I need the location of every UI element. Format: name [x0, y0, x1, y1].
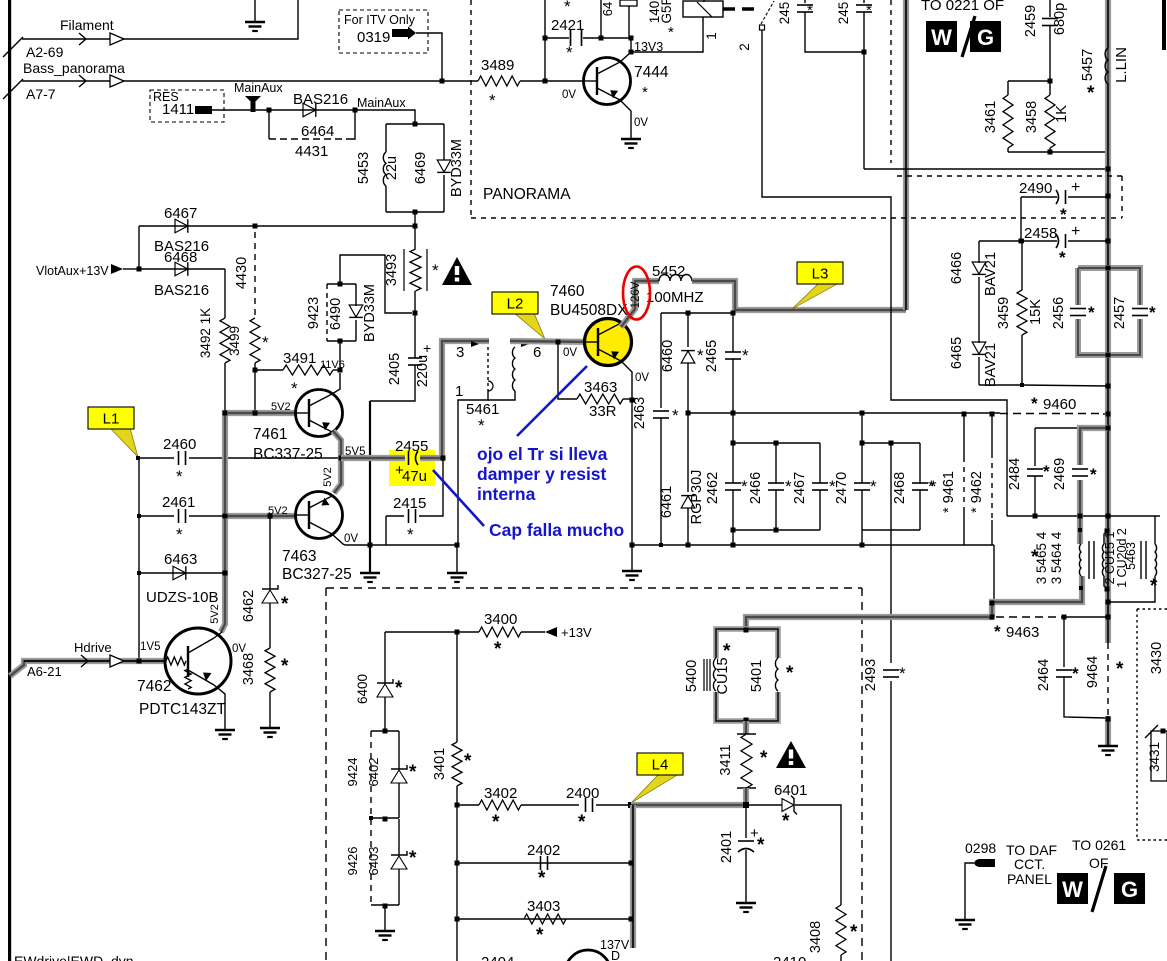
warning triangle 2 [776, 741, 806, 768]
svg-text:6402: 6402 [366, 758, 381, 787]
gray trace winding 5465 path [1077, 516, 1083, 544]
svg-text:Filament: Filament [60, 17, 114, 33]
svg-text:3489: 3489 [481, 57, 514, 74]
svg-text:5V2: 5V2 [209, 604, 221, 624]
diode 6464 BAS216 [303, 103, 316, 117]
svg-text:A2-69: A2-69 [26, 44, 64, 60]
svg-text:A6-21: A6-21 [27, 664, 62, 679]
box CU15 5400 5401 [716, 629, 778, 721]
svg-text:MainAux: MainAux [357, 96, 406, 110]
svg-text:*: * [1059, 248, 1066, 267]
junction L4 [628, 802, 634, 808]
wire component 64xx [600, 0, 602, 38]
svg-text:G5P: G5P [659, 0, 674, 24]
junction 2415 riser [441, 456, 446, 461]
capacitor 2456 [1070, 305, 1086, 319]
resistor 3493 fusible [403, 249, 405, 291]
wire collector node stub [661, 312, 735, 314]
svg-text:+: + [423, 340, 431, 356]
svg-text:*: * [1116, 659, 1124, 680]
svg-text:47u: 47u [402, 468, 427, 485]
svg-text:2405: 2405 [387, 353, 403, 385]
wire 1411 to MainAux plug [212, 109, 269, 111]
svg-text:7444: 7444 [634, 64, 669, 81]
pin marker 6 [521, 341, 529, 347]
capacitor bank 2470 2468 [861, 413, 863, 443]
capacitor bank 2462 2466 2467 [732, 413, 734, 443]
gray bus far right x1108 upper [1105, 0, 1111, 48]
transistor 7461 BC337-25 [296, 390, 343, 437]
capacitor 245x a [804, 0, 806, 3]
svg-text:1411: 1411 [162, 101, 194, 118]
dashed link 9462 [991, 414, 993, 453]
svg-text:6461: 6461 [659, 486, 675, 518]
resistor 3403 [524, 914, 566, 924]
capacitor 2415 [386, 515, 404, 517]
junction bass/0319 [440, 79, 445, 84]
svg-text:5452: 5452 [652, 263, 685, 280]
relay contact 4431 bypass path [268, 110, 270, 139]
gray trace collector 7460 to coil 5452 [621, 281, 659, 327]
bus junction dots [1106, 167, 1111, 172]
junction base 7460 [556, 340, 561, 345]
junction 3499 bottom [253, 368, 258, 373]
svg-text:*: * [899, 664, 906, 683]
svg-text:6400: 6400 [355, 674, 370, 704]
wire 6467 to 6468 row [138, 226, 140, 269]
wire bank1 to rail [732, 530, 734, 545]
inductor 5452 100MHZ [659, 275, 692, 282]
svg-text:9464: 9464 [1085, 656, 1101, 688]
PANORAMA dashed border bottom [471, 217, 1122, 219]
svg-text:2461: 2461 [162, 494, 195, 511]
svg-text:MainAux: MainAux [234, 81, 283, 95]
node line y413 [688, 412, 1000, 414]
svg-text:RGP30J: RGP30J [689, 470, 705, 525]
wire 3403 row [457, 918, 631, 920]
capacitor 2405 220u [414, 313, 416, 358]
warning triangle 1 [442, 257, 472, 285]
svg-text:*: * [870, 477, 877, 496]
svg-text:*: * [432, 261, 439, 280]
rail down to gray corner [993, 545, 995, 603]
dashed trace 9463 [996, 616, 1062, 618]
svg-text:4431: 4431 [295, 143, 328, 160]
svg-text:*: * [1031, 394, 1038, 413]
svg-text:3458: 3458 [1024, 101, 1040, 133]
svg-text:7461: 7461 [253, 426, 287, 443]
page left border [8, 0, 11, 961]
svg-text:For ITV Only: For ITV Only [344, 13, 416, 27]
spark gap 9424 diode 6402 [383, 729, 388, 734]
ground 2401 [736, 902, 756, 905]
svg-text:*: * [723, 641, 731, 662]
svg-text:0319: 0319 [357, 29, 390, 46]
diode 6469 BYD33M [437, 160, 451, 172]
diode 6468 BAS216 [175, 262, 188, 276]
svg-text:*: * [407, 525, 414, 544]
junction Hdrive [137, 659, 142, 664]
diodes 6466 6465 BAV21 resistor 3459 15K [978, 241, 980, 263]
relay 140 G5P coil [683, 1, 723, 17]
capacitor 2463 [660, 313, 662, 408]
svg-text:2466: 2466 [748, 472, 764, 504]
svg-text:*: * [1087, 83, 1095, 104]
svg-text:2463: 2463 [632, 397, 648, 429]
transformer 5400 core [703, 659, 705, 691]
gray trace CU15 feed [746, 617, 994, 632]
svg-text:3402: 3402 [484, 785, 517, 802]
svg-text:*: * [1090, 465, 1097, 484]
resistor 3489 [478, 76, 520, 86]
wire 0319 to bass line [416, 33, 442, 81]
svg-text:*: * [757, 835, 765, 856]
svg-text:2468: 2468 [892, 472, 908, 504]
diode 6461 RGP30J [687, 413, 689, 492]
svg-text:4430: 4430 [234, 257, 250, 289]
junction 3499 gray [253, 411, 258, 416]
capacitor 2469 [1071, 465, 1089, 480]
junction 3493 bottom [413, 311, 418, 316]
svg-text:15K: 15K [1028, 299, 1044, 325]
svg-text:*: * [494, 639, 502, 660]
junction 2459 [1048, 79, 1053, 84]
junction 3491 / collector 7461 [338, 368, 343, 373]
svg-text:6468: 6468 [164, 249, 197, 266]
svg-text:3491: 3491 [283, 350, 316, 367]
svg-text:*: * [538, 868, 546, 889]
svg-text:2401: 2401 [719, 831, 735, 863]
svg-text:*: * [1149, 303, 1156, 322]
svg-text:BAS216: BAS216 [154, 282, 209, 299]
diode 6400 [384, 632, 386, 683]
svg-text:damper y resist: damper y resist [477, 464, 607, 484]
dashed box bottom top edge [326, 587, 862, 589]
svg-text:9426: 9426 [345, 847, 360, 876]
transformer 5400 winding [711, 658, 721, 692]
node line y516 [1007, 515, 1160, 517]
junction 13V3 [629, 50, 634, 55]
svg-text:G: G [977, 25, 994, 50]
svg-text:UDZS-10B: UDZS-10B [146, 589, 219, 606]
wire 6468 to resistor 3492 [224, 269, 226, 318]
svg-text:*: * [697, 346, 704, 365]
svg-text:9424: 9424 [345, 758, 360, 787]
resistors 3461 3458 1K [1008, 80, 1050, 82]
PANORAMA dashed border right [890, 0, 892, 163]
svg-text:3468: 3468 [241, 653, 257, 685]
junction 5453 bottom [413, 210, 418, 215]
wire 7462 emitter to ground [214, 685, 225, 729]
svg-text:680p: 680p [1052, 3, 1068, 35]
junction 3411 bottom [743, 802, 749, 808]
logo W/G top [926, 21, 957, 52]
junction 4430 top [253, 224, 258, 229]
svg-text:3 5464 4: 3 5464 4 [1049, 531, 1064, 584]
resistor 3401 [456, 632, 458, 742]
svg-text:6462: 6462 [241, 590, 257, 622]
svg-text:6465: 6465 [949, 337, 965, 369]
wire y169 to bus [864, 168, 1108, 170]
capacitor 2455 47u [408, 451, 410, 465]
transistor 7444 [584, 58, 631, 105]
svg-text:0V: 0V [563, 347, 577, 359]
wire 6490 top to 3493 [340, 255, 412, 313]
svg-text:*: * [578, 812, 586, 833]
svg-text:*: * [930, 477, 937, 496]
svg-text:2469: 2469 [1052, 458, 1068, 490]
transformer CU20d 5463 [1154, 516, 1156, 544]
svg-text:BAV21: BAV21 [983, 343, 999, 387]
capacitor 245x b [863, 0, 865, 3]
wire switch down and across [762, 30, 1007, 516]
svg-text:2456: 2456 [1051, 297, 1067, 329]
svg-text:2467: 2467 [792, 472, 808, 504]
svg-text:*: * [1150, 576, 1158, 597]
svg-text:CCT.: CCT. [1014, 856, 1045, 872]
svg-text:6460: 6460 [660, 340, 676, 372]
svg-text:2404: 2404 [481, 954, 514, 961]
svg-text:0298: 0298 [965, 840, 996, 856]
svg-text:BYD33M: BYD33M [362, 284, 378, 342]
svg-text:CU15: CU15 [715, 657, 731, 694]
svg-text:*: * [1031, 547, 1039, 568]
svg-text:3492 1K: 3492 1K [198, 308, 213, 358]
svg-text:2: 2 [737, 43, 752, 51]
junction caps [862, 50, 867, 55]
svg-text:1: 1 [704, 32, 719, 40]
svg-text:L3: L3 [812, 266, 829, 283]
ground rail y545 left segment [345, 544, 458, 546]
wire L1 node down [138, 458, 140, 661]
svg-text:*: * [262, 333, 269, 352]
svg-text:PANEL: PANEL [1007, 871, 1052, 887]
svg-text:2460: 2460 [163, 436, 196, 453]
yellow highlight 2455 [389, 450, 435, 486]
svg-text:6466: 6466 [949, 252, 965, 284]
svg-text:1: 1 [455, 383, 463, 400]
flag L1 [110, 428, 138, 457]
wire 2493 vertical [890, 443, 892, 961]
svg-text:W: W [1062, 877, 1083, 902]
svg-text:7463: 7463 [282, 548, 316, 565]
svg-text:*: * [281, 656, 289, 677]
svg-text:2402: 2402 [527, 842, 560, 859]
red ellipse 126V [623, 267, 650, 320]
svg-text:5463: 5463 [1124, 542, 1138, 570]
svg-text:1V5: 1V5 [140, 641, 160, 653]
svg-text:BAS216: BAS216 [293, 91, 348, 108]
svg-text:2415: 2415 [393, 495, 426, 512]
svg-text:3403: 3403 [527, 898, 560, 915]
dashed segment 9460 [1000, 413, 1103, 415]
svg-text:+13V: +13V [561, 625, 592, 640]
svg-text:*: * [668, 24, 674, 41]
junction emitter 5V5 [339, 456, 344, 461]
relay contact dashes [723, 7, 758, 11]
flag L4 [631, 774, 679, 803]
svg-text:5453: 5453 [356, 152, 372, 184]
svg-text:126V: 126V [630, 281, 642, 308]
svg-text:*: * [489, 91, 496, 110]
svg-text:2493: 2493 [863, 659, 879, 691]
svg-text:L1: L1 [103, 411, 120, 428]
svg-text:2484: 2484 [1007, 458, 1023, 490]
wire 7463 collector to ground rail [333, 535, 345, 545]
wire emitter node down to ground [631, 400, 633, 545]
svg-text:2410: 2410 [773, 954, 806, 961]
block 9423 / diode 6490 BYD33M [339, 341, 341, 370]
resistor 3411 fusible [743, 721, 749, 734]
wire 7444 emitter ground [620, 100, 631, 138]
junction 6462 node [268, 514, 273, 519]
gray box capacitors 2456 2457 [1078, 268, 1140, 355]
svg-text:* 9462: * 9462 [969, 471, 985, 513]
svg-text:245: 245 [836, 2, 851, 25]
svg-text:*: * [741, 477, 748, 496]
svg-text:22u: 22u [384, 156, 400, 180]
svg-text:*: * [642, 84, 648, 101]
svg-text:0V: 0V [635, 372, 649, 384]
gray trace 5V5 line [341, 455, 405, 461]
right edge bar top [1162, 0, 1166, 50]
component 3431 [1151, 731, 1167, 781]
transformer 5465 5464 windings [1079, 544, 1081, 576]
svg-text:6403: 6403 [366, 847, 381, 876]
svg-text:0V: 0V [344, 533, 358, 545]
svg-text:245: 245 [777, 2, 792, 25]
svg-text:*: * [176, 525, 183, 544]
svg-text:W: W [931, 25, 952, 50]
svg-text:3459: 3459 [996, 297, 1012, 329]
svg-text:*: * [536, 925, 544, 946]
svg-text:+: + [1071, 179, 1080, 196]
svg-text:*: * [564, 0, 571, 16]
junction 3492 bottom [223, 411, 228, 416]
gray trace L4 row [631, 802, 746, 808]
svg-text:2465: 2465 [704, 340, 720, 372]
flag L3 [792, 283, 839, 309]
wire 6467 row [139, 225, 415, 227]
wire top x545 [544, 0, 546, 81]
svg-text:7460: 7460 [550, 283, 585, 300]
svg-text:PDTC143ZT: PDTC143ZT [139, 701, 227, 718]
svg-text:PANORAMA: PANORAMA [483, 186, 571, 203]
dashed box 2490 right [1121, 176, 1123, 218]
svg-text:L.LIN: L.LIN [1113, 47, 1130, 83]
svg-text:6490: 6490 [328, 298, 344, 330]
inductor 5453 22u block with diode 6469 [386, 123, 444, 125]
svg-text:Bass_panorama: Bass_panorama [23, 60, 125, 76]
node A2-69 Filament input wire [22, 0, 298, 39]
gray trace 2469 branch [1080, 428, 1108, 516]
junction 5453 top [413, 122, 418, 127]
capacitor 2461 [139, 515, 174, 517]
svg-text:L4: L4 [652, 757, 669, 774]
capacitor 2459 680p [1049, 0, 1051, 17]
svg-text:3430: 3430 [1149, 642, 1165, 674]
gray trace 7461 emitter to 7463 emitter [333, 431, 341, 452]
svg-text:0V: 0V [634, 117, 648, 129]
svg-text:3461: 3461 [983, 101, 999, 133]
svg-text:3: 3 [456, 344, 464, 361]
svg-text:interna: interna [477, 484, 536, 504]
svg-text:* 9461: * 9461 [941, 471, 957, 513]
svg-text:6464: 6464 [301, 123, 334, 140]
diode 6401 [746, 804, 782, 806]
wire 7462 collector gray joins [214, 632, 222, 638]
diode 6467 BAS216 [175, 219, 188, 233]
svg-text:A7-7: A7-7 [26, 86, 56, 102]
svg-text:7462: 7462 [137, 678, 171, 695]
resistor 3400 +13V [385, 631, 479, 633]
svg-text:*: * [409, 762, 417, 783]
svg-text:*: * [782, 811, 790, 832]
svg-text:*: * [785, 477, 792, 496]
svg-text:3408: 3408 [808, 921, 824, 953]
dashed box bottom left edge [325, 588, 327, 961]
svg-text:TO 0261: TO 0261 [1072, 837, 1126, 853]
svg-text:*: * [994, 622, 1001, 641]
svg-text:5V2: 5V2 [322, 467, 334, 487]
gray trace left rail down [221, 410, 225, 632]
svg-text:*: * [291, 379, 298, 398]
ground rail y545 right segment [632, 544, 994, 546]
svg-text:*: * [281, 594, 289, 615]
svg-text:*: * [850, 922, 858, 943]
svg-text:2470: 2470 [834, 472, 850, 504]
svg-text:2421: 2421 [551, 17, 584, 34]
svg-text:6467: 6467 [164, 205, 197, 222]
svg-text:6463: 6463 [164, 551, 197, 568]
capacitor 2465 [732, 313, 734, 352]
pin marker 3 [471, 341, 479, 347]
svg-text:D: D [611, 949, 620, 961]
gray trace winding3 feed [442, 341, 489, 346]
dashed link 4430 [254, 232, 256, 316]
svg-text:BC337-25: BC337-25 [253, 446, 323, 463]
gray trace base 7460 [510, 341, 597, 342]
capacitor 2400 [585, 798, 587, 812]
gray bus 9464 break [1107, 643, 1109, 716]
ground 9426 [384, 906, 386, 930]
svg-text:TO 0221 OF: TO 0221 OF [921, 0, 1004, 14]
svg-text:64: 64 [600, 2, 615, 16]
svg-text:5400: 5400 [684, 660, 700, 692]
node A6-21 Hdrive input [10, 661, 164, 676]
svg-text:33R: 33R [589, 403, 617, 420]
blue callout line transistor [517, 366, 587, 436]
svg-text:Hdrive: Hdrive [74, 640, 112, 655]
capacitor 2457 [1132, 305, 1148, 319]
svg-text:*: * [176, 467, 183, 486]
PANORAMA dashed border left [470, 0, 472, 218]
capacitor 2401 [745, 805, 747, 838]
logo W/G bottom [1057, 873, 1088, 904]
gray trace L4 bus down [630, 805, 636, 948]
svg-text:*: * [742, 346, 749, 365]
flag L2 [514, 313, 545, 339]
ground top-left [254, 0, 256, 22]
capacitor 2460 [138, 457, 174, 459]
svg-text:*: * [566, 43, 573, 62]
svg-text:+: + [1071, 223, 1080, 240]
svg-text:VlotAux+13V: VlotAux+13V [36, 264, 109, 278]
MainAux plug symbol [245, 96, 261, 104]
svg-text:*: * [1043, 462, 1050, 481]
capacitor 2493 [883, 663, 899, 681]
transformer 5461 primary winding dashed [487, 347, 489, 391]
